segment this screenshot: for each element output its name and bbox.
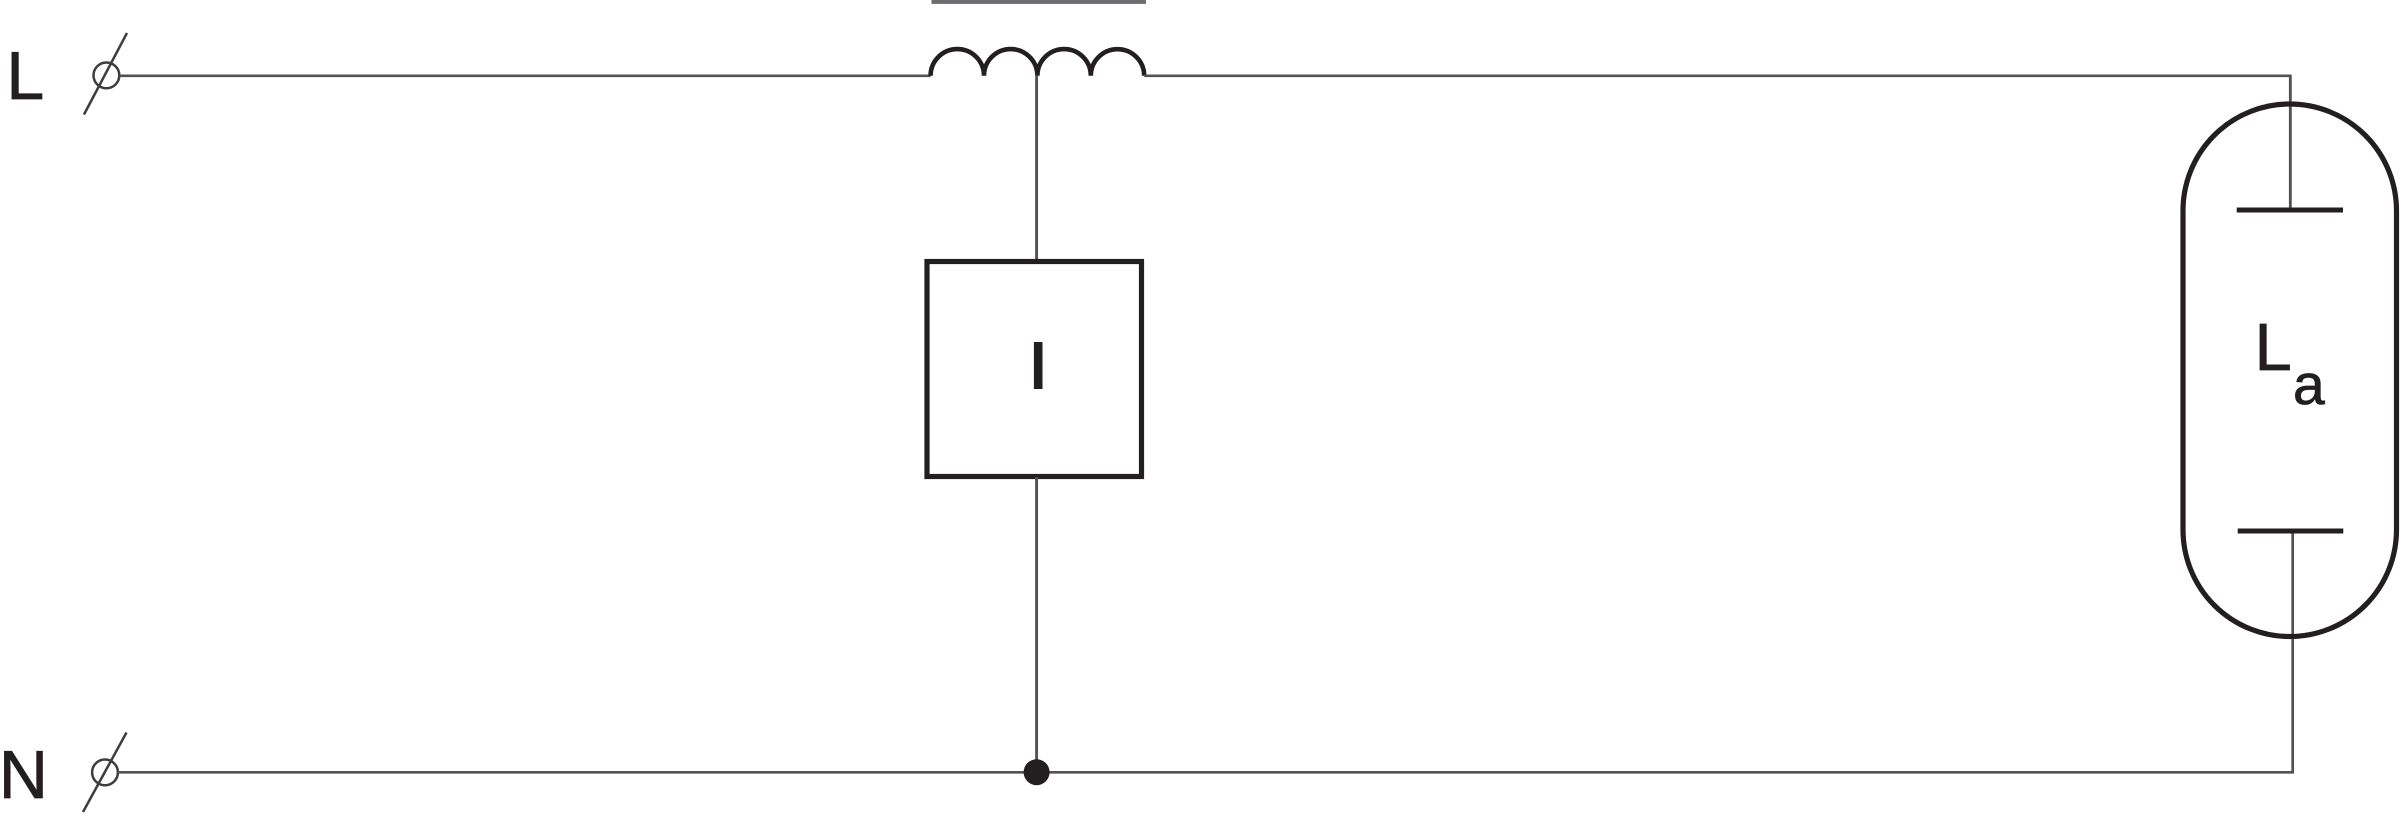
wire ignitor top — [1035, 76, 1038, 262]
junction dot — [1024, 759, 1050, 785]
wire ignitor bottom — [1035, 477, 1038, 772]
svg-text:L: L — [2255, 310, 2292, 385]
svg-text:L: L — [6, 38, 44, 114]
inductor — [931, 49, 1145, 76]
lamp La outline — [2183, 104, 2397, 637]
terminal N — [83, 733, 127, 813]
lamp electrode bottom — [2238, 529, 2344, 534]
label I — [1034, 342, 1043, 389]
lamp electrode top — [2237, 208, 2343, 213]
ignitor box — [927, 262, 1142, 477]
wire lamp top stub — [2289, 76, 2292, 210]
svg-text:a: a — [2293, 353, 2325, 417]
wire bottom rail — [118, 531, 2293, 772]
inductor core bar — [932, 0, 1147, 4]
terminal L — [84, 33, 127, 115]
wire top rail right — [1144, 76, 2290, 209]
wire top rail left — [120, 74, 931, 77]
svg-text:N: N — [0, 737, 48, 813]
